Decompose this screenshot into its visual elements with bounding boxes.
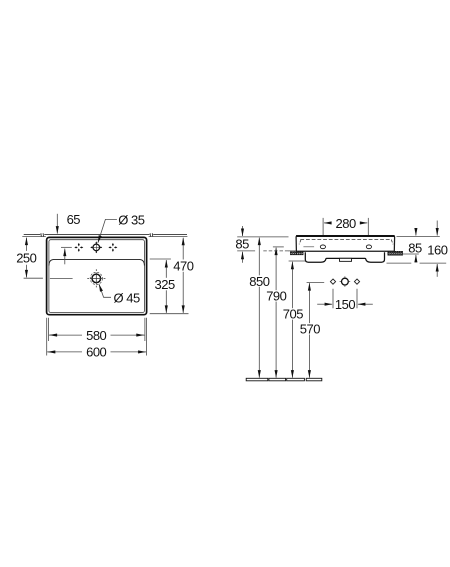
svg-text:580: 580 (86, 328, 106, 343)
svg-text:Ø 35: Ø 35 (118, 213, 144, 228)
svg-text:65: 65 (67, 212, 81, 227)
svg-text:280: 280 (335, 216, 355, 231)
svg-text:470: 470 (173, 258, 193, 273)
svg-text:150: 150 (335, 297, 355, 312)
svg-text:250: 250 (16, 251, 36, 266)
svg-text:850: 850 (249, 274, 269, 289)
svg-text:600: 600 (86, 345, 106, 360)
svg-text:790: 790 (266, 289, 286, 304)
svg-text:325: 325 (154, 277, 174, 292)
svg-text:85: 85 (235, 237, 249, 252)
svg-text:Ø 45: Ø 45 (114, 290, 140, 305)
svg-text:160: 160 (427, 243, 447, 258)
svg-text:705: 705 (283, 307, 303, 322)
svg-text:85: 85 (408, 241, 422, 256)
svg-text:570: 570 (300, 322, 320, 337)
